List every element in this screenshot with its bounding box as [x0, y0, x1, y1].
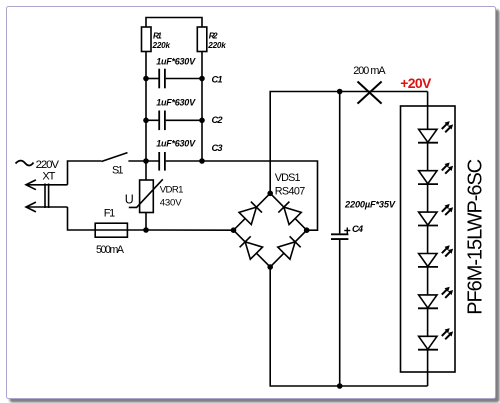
wire capacitor C4 top lead: [339, 92, 341, 234]
svg-text:1uF*630V: 1uF*630V: [156, 98, 196, 108]
junction node C2 left: [143, 118, 149, 124]
svg-text:C4: C4: [352, 224, 364, 234]
LED D6: [418, 328, 453, 350]
connector XT bars: [45, 184, 49, 209]
wire switch to node A: [128, 160, 159, 162]
wire plug upper to switch: [68, 161, 102, 185]
capacitor C2: [146, 111, 202, 131]
junction node C2 right: [199, 118, 205, 124]
bridge rectifier VDS1 outline: [234, 193, 307, 267]
wire plug lower to fuse: [68, 207, 96, 230]
capacitor C3: [159, 152, 165, 171]
LED D3: [418, 204, 453, 226]
diode top-right: [278, 201, 301, 224]
wire top R1-R2: [146, 18, 202, 28]
LED module box: [401, 106, 456, 372]
svg-text:220k: 220k: [152, 41, 171, 50]
svg-text:1uF*630V: 1uF*630V: [156, 139, 196, 149]
diode bottom-right: [278, 236, 301, 259]
AC source tilde: [16, 161, 34, 166]
svg-text:220k: 220k: [207, 41, 226, 50]
switch S1 blade: [101, 153, 127, 162]
svg-text:430V: 430V: [160, 198, 182, 209]
junction node C1 right: [199, 76, 205, 82]
svg-text:RS407: RS407: [275, 186, 306, 198]
wire LED rail vertical: [427, 92, 429, 387]
svg-text:200 mA: 200 mA: [353, 65, 386, 77]
ammeter cross X: [358, 82, 382, 104]
junction C4 top: [337, 89, 343, 95]
wire main C3 to right turn: [166, 161, 318, 230]
svg-text:VDS1: VDS1: [275, 172, 301, 184]
svg-text:2200µF*35V: 2200µF*35V: [344, 200, 396, 210]
LED D1: [418, 121, 453, 143]
svg-text:XT: XT: [42, 171, 55, 183]
svg-text:C3: C3: [212, 143, 224, 153]
junction bridge left: [231, 227, 237, 233]
varistor VDR1: [129, 179, 163, 212]
junction node C3 left: [143, 158, 149, 164]
junction C4 bottom: [337, 383, 343, 389]
junction node C1 left: [143, 76, 149, 82]
junction VDR fuse: [143, 227, 149, 233]
svg-text:500mA: 500mA: [96, 244, 125, 256]
wire capacitor C4 bottom lead: [339, 240, 341, 386]
svg-text:C1: C1: [212, 75, 223, 85]
wire VDR top lead: [145, 161, 147, 180]
svg-text:U: U: [125, 192, 134, 206]
junction bridge bottom: [267, 264, 273, 270]
capacitor C4: [331, 234, 348, 239]
LED D5: [418, 287, 453, 309]
diode top-left: [239, 201, 262, 224]
fuse F1: [95, 223, 146, 237]
wire right rail: [201, 52, 203, 162]
svg-text:C2: C2: [212, 115, 224, 125]
svg-text:220V: 220V: [36, 159, 60, 171]
wire fuse to bridge: [146, 229, 234, 231]
wire bridge minus to bottom: [270, 267, 427, 386]
resistor R2: [197, 27, 207, 52]
plug arrow lower: [26, 202, 68, 212]
LED D4: [418, 245, 453, 267]
svg-text:+20V: +20V: [400, 75, 432, 91]
svg-text:PF6M-15LWP-6SC: PF6M-15LWP-6SC: [464, 159, 486, 315]
svg-text:R1: R1: [153, 32, 162, 41]
wire bridge plus to LED rail: [270, 92, 427, 194]
plug arrow upper: [26, 180, 68, 190]
label C4 polarity plus: [344, 228, 350, 234]
diode bottom-left: [239, 236, 262, 259]
resistor R1: [142, 27, 152, 52]
LED D2: [418, 163, 453, 185]
wire VDR bottom lead: [145, 213, 147, 231]
svg-text:F1: F1: [104, 207, 115, 219]
junction bridge right: [304, 227, 310, 233]
svg-text:R2: R2: [209, 32, 218, 41]
wire left rail: [145, 52, 147, 162]
junction node C3 right: [199, 158, 205, 164]
svg-text:1uF*630V: 1uF*630V: [156, 57, 196, 67]
capacitor C1: [146, 69, 202, 89]
svg-text:VDR1: VDR1: [160, 185, 184, 196]
svg-text:S1: S1: [112, 164, 124, 176]
junction bridge top: [267, 191, 273, 197]
